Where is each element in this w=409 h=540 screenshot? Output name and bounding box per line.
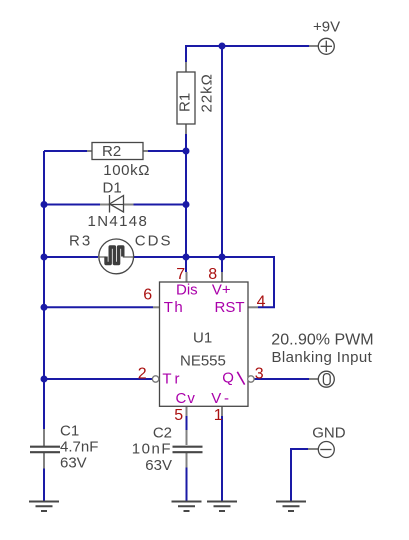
svg-text:NE555: NE555 xyxy=(180,352,226,369)
svg-text:3: 3 xyxy=(255,365,264,382)
svg-text:22kΩ: 22kΩ xyxy=(199,73,216,112)
svg-text:20..90% PWM: 20..90% PWM xyxy=(271,332,373,349)
svg-text:Blanking Input: Blanking Input xyxy=(272,349,373,366)
svg-text:Q: Q xyxy=(222,369,234,386)
svg-text:7: 7 xyxy=(176,266,185,283)
svg-text:C2: C2 xyxy=(153,425,172,442)
svg-text:1: 1 xyxy=(214,407,223,424)
svg-text:U1: U1 xyxy=(193,330,212,347)
svg-text:63V: 63V xyxy=(145,457,172,474)
svg-text:R1: R1 xyxy=(177,93,194,112)
svg-text:RST: RST xyxy=(215,299,245,316)
svg-text:Cv: Cv xyxy=(176,390,196,407)
svg-text:+9V: +9V xyxy=(313,18,340,35)
svg-text:GND: GND xyxy=(312,424,346,441)
svg-text:4: 4 xyxy=(257,294,266,311)
svg-text:D1: D1 xyxy=(103,180,122,197)
svg-text:V+: V+ xyxy=(212,282,231,299)
svg-text:6: 6 xyxy=(143,287,152,304)
svg-text:C1: C1 xyxy=(60,423,79,440)
svg-text:1N4148: 1N4148 xyxy=(88,213,149,230)
svg-text:100kΩ: 100kΩ xyxy=(103,162,150,179)
svg-text:Dis: Dis xyxy=(176,282,198,299)
svg-text:V-: V- xyxy=(211,390,232,407)
svg-text:10nF: 10nF xyxy=(132,441,172,458)
svg-text:CDS: CDS xyxy=(135,233,173,250)
svg-text:63V: 63V xyxy=(60,455,87,472)
svg-text:4.7nF: 4.7nF xyxy=(60,439,98,456)
svg-text:Th: Th xyxy=(164,299,185,316)
svg-text:Tr: Tr xyxy=(162,370,183,387)
svg-text:2: 2 xyxy=(138,365,147,382)
svg-text:8: 8 xyxy=(208,266,217,283)
svg-text:5: 5 xyxy=(174,407,183,424)
svg-text:R3: R3 xyxy=(69,233,92,250)
svg-text:R2: R2 xyxy=(102,143,121,160)
